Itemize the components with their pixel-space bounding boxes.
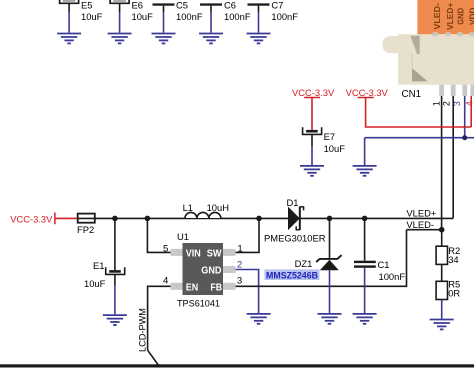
power flag VCC-3.3V (CN1) <box>346 87 389 98</box>
ground (CN1 GND) <box>353 166 377 176</box>
svg-text:FP2: FP2 <box>77 224 94 235</box>
wire U1 pin2 GND to ground (blue) <box>236 270 259 314</box>
svg-text:VDD: VDD <box>468 7 474 25</box>
svg-text:D1: D1 <box>287 197 299 208</box>
connector CN1 orange header <box>417 0 474 36</box>
op-amp U1 TPS61041 <box>171 231 236 309</box>
wire E6 to ground <box>119 4 121 33</box>
svg-text:GND: GND <box>457 8 466 25</box>
ground (C1) <box>353 314 377 324</box>
wire VCC to CN1 pin4 (red) <box>366 96 472 127</box>
svg-text:FB: FB <box>210 283 222 294</box>
wire C5 to ground <box>163 6 165 33</box>
wire DZ1 node to zener <box>329 218 331 259</box>
ground (E1) <box>103 315 127 325</box>
svg-text:CN1: CN1 <box>402 89 422 100</box>
svg-text:DZ1: DZ1 <box>295 258 313 269</box>
ground (E5) <box>57 34 81 44</box>
wire R2 to R5 <box>441 264 443 281</box>
main wire FP2 to VLED+ <box>78 217 454 219</box>
svg-text:3: 3 <box>237 276 242 287</box>
svg-text:4: 4 <box>163 275 169 286</box>
svg-text:10uH: 10uH <box>207 202 229 213</box>
ground (C6) <box>199 34 223 44</box>
svg-text:U1: U1 <box>177 231 189 242</box>
wire R5 to ground <box>441 300 443 319</box>
svg-text:VCC-3.3V: VCC-3.3V <box>346 87 389 98</box>
wire DZ1 to ground <box>329 270 331 313</box>
wire input node to E1 <box>114 218 116 270</box>
svg-text:100nF: 100nF <box>176 11 203 22</box>
svg-text:2: 2 <box>237 260 242 271</box>
svg-text:VLED-: VLED- <box>406 219 434 230</box>
wire CN1 pin2 to VLED+ node <box>452 96 454 218</box>
svg-text:EN: EN <box>186 283 198 294</box>
capacitor C1 <box>354 259 405 282</box>
diode D1 PMEG3010ER <box>264 197 326 244</box>
svg-text:L1: L1 <box>183 202 193 213</box>
svg-text:MMSZ5246B: MMSZ5246B <box>266 271 318 281</box>
wire CN1 pin1 to VLED- node <box>441 96 443 230</box>
svg-text:100nF: 100nF <box>271 11 298 22</box>
svg-text:SW: SW <box>207 248 222 259</box>
svg-text:34: 34 <box>448 254 458 265</box>
node junction (pin3/GND) <box>462 135 467 140</box>
ground (E6) <box>108 34 132 44</box>
svg-text:VLED+: VLED+ <box>446 2 455 30</box>
svg-text:E7: E7 <box>324 131 335 142</box>
svg-text:2: 2 <box>441 101 451 106</box>
power flag VCC-3.3V (input) <box>10 213 55 225</box>
ground (C7) <box>247 34 271 44</box>
ground (DZ1) <box>318 314 342 324</box>
svg-text:VIN: VIN <box>186 248 201 259</box>
CN1 pin stubs <box>439 85 474 96</box>
svg-text:VCC-3.3V: VCC-3.3V <box>292 87 335 98</box>
svg-text:1: 1 <box>237 244 242 255</box>
value label MMSZ5246B <box>265 269 320 280</box>
svg-text:E1: E1 <box>93 260 104 271</box>
capacitor E6 <box>110 0 153 22</box>
wire U1 pin4 EN to LCD-PWM <box>148 286 171 365</box>
ground (U1 GND) <box>247 314 271 324</box>
svg-text:VLED-: VLED- <box>433 3 442 30</box>
svg-text:PMEG3010ER: PMEG3010ER <box>264 232 326 243</box>
wire VLED- node to R2 <box>441 230 443 247</box>
svg-text:TPS61041: TPS61041 <box>177 298 220 309</box>
power flag VCC-3.3V (E7) <box>292 87 335 98</box>
svg-text:VLED+: VLED+ <box>406 208 436 219</box>
zener DZ1 <box>295 255 342 270</box>
svg-text:5: 5 <box>163 243 168 254</box>
svg-text:LCD-PWM: LCD-PWM <box>137 308 147 352</box>
resistor R2 <box>436 245 460 265</box>
svg-text:E6: E6 <box>132 0 143 11</box>
resistor R5 <box>436 279 460 300</box>
wire VCC input to FP2 (red) <box>55 217 78 219</box>
ferrite bead FP2 <box>77 214 95 235</box>
wire U1 pin1 SW to main line <box>236 218 260 252</box>
wire VIN node to U1 pin5 <box>147 218 170 252</box>
capacitor C6 <box>200 0 251 22</box>
node junction (SW) <box>256 216 262 222</box>
svg-text:C6: C6 <box>224 0 236 11</box>
wire VLED- <box>407 229 442 231</box>
inductor L1 <box>183 202 229 219</box>
svg-text:C1: C1 <box>378 259 390 270</box>
wire C7 to ground <box>258 6 260 33</box>
svg-text:100nF: 100nF <box>224 11 251 22</box>
node junction (VLED-/R2) <box>439 227 445 233</box>
wire VCC to E7 <box>311 98 313 131</box>
node junction (DZ1) <box>327 216 333 222</box>
ground (E7) <box>300 166 324 176</box>
board edge bus line <box>0 364 474 367</box>
capacitor C5 <box>153 0 203 22</box>
capacitor E1 <box>84 260 125 289</box>
svg-text:E5: E5 <box>81 0 92 11</box>
wire U1 pin3 FB to VLED- <box>236 230 407 287</box>
svg-text:GND: GND <box>201 266 221 277</box>
wire E5 to ground <box>68 4 70 33</box>
connector CN1 body <box>383 34 474 100</box>
svg-text:0R: 0R <box>448 287 460 298</box>
svg-text:C5: C5 <box>176 0 188 11</box>
svg-text:10uF: 10uF <box>81 11 103 22</box>
svg-text:VCC-3.3V: VCC-3.3V <box>10 214 53 225</box>
wire C1 to ground <box>364 268 366 313</box>
svg-text:10uF: 10uF <box>132 11 154 22</box>
svg-text:10uF: 10uF <box>84 278 106 289</box>
node junction (input/E1) <box>112 216 118 222</box>
wire C1 node to C1 <box>364 218 366 260</box>
svg-text:100nF: 100nF <box>379 271 406 282</box>
wire CN1 pin3 to GND (blue) <box>365 96 474 165</box>
capacitor E5 <box>60 0 103 22</box>
ground (C5) <box>152 34 176 44</box>
wire C6 to ground <box>210 6 212 33</box>
capacitor E7 <box>303 127 346 154</box>
svg-text:10uF: 10uF <box>324 143 346 154</box>
svg-text:1: 1 <box>431 101 441 106</box>
wire E7 to ground <box>311 134 313 165</box>
node junction (C1) <box>362 216 368 222</box>
capacitor C7 <box>248 0 299 22</box>
svg-text:C7: C7 <box>271 0 283 11</box>
node junction (input/VIN) <box>145 216 151 222</box>
wire E1 to ground <box>114 274 116 314</box>
ground (R5) <box>430 320 454 330</box>
svg-text:4: 4 <box>465 101 474 106</box>
